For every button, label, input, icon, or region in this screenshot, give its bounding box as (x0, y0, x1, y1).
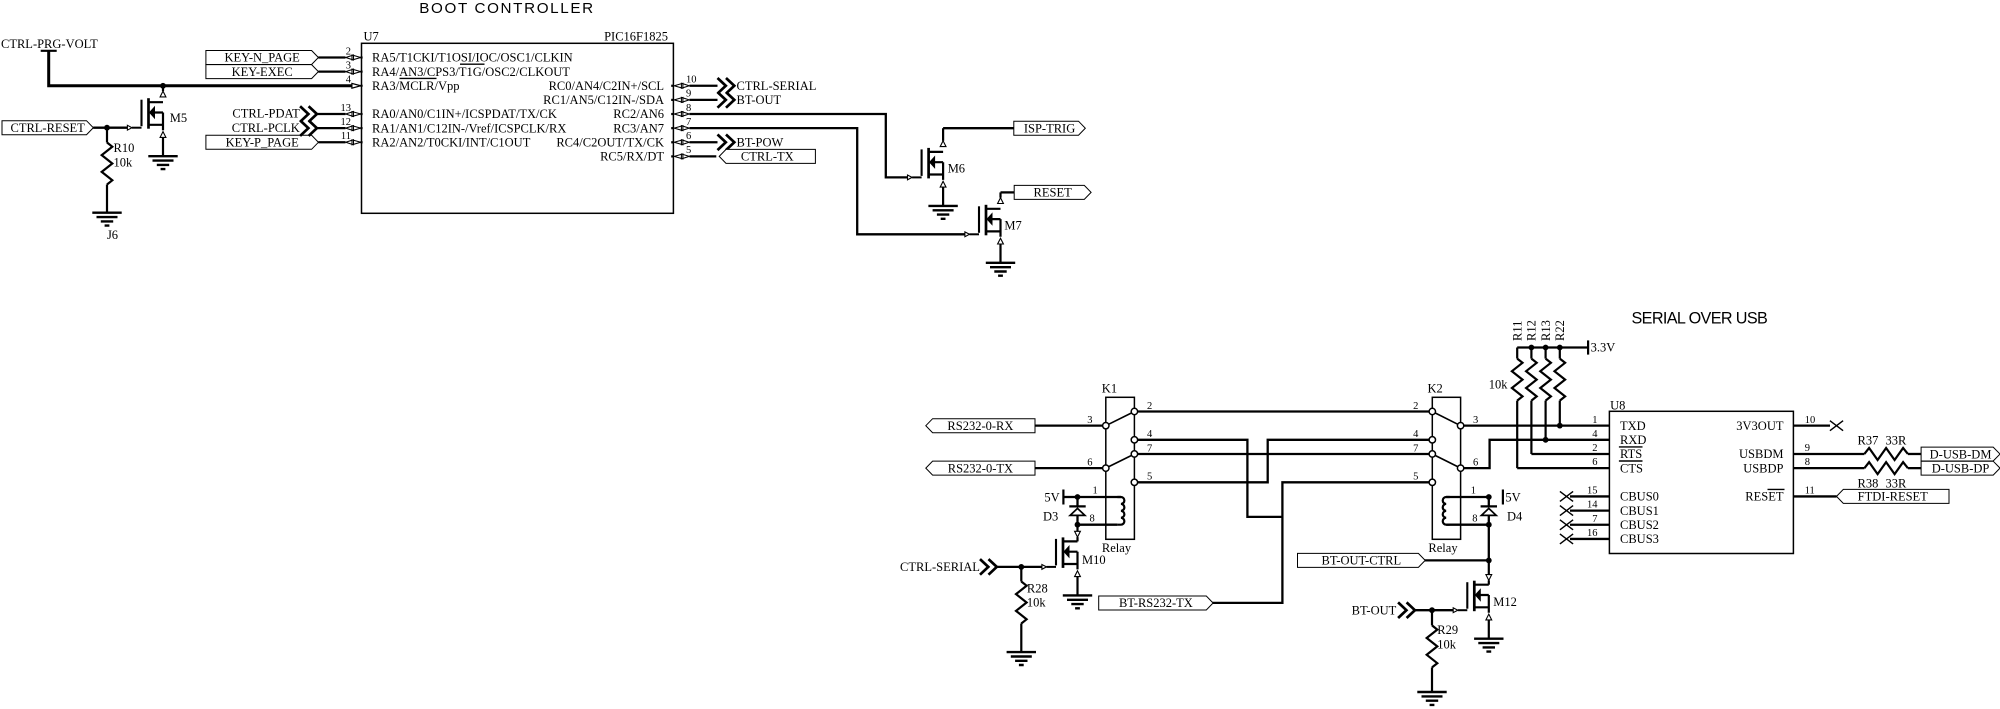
M12 drain pin arrow (1486, 575, 1492, 581)
wire K1 coil pin 1 to 5V (1078, 496, 1121, 498)
wire K1.2 to K2.2 (1138, 410, 1430, 412)
K1 contact pin 7 (1131, 451, 1137, 457)
U7 pin 8 (674, 112, 689, 117)
wire 3V3OUT no-connect (1793, 425, 1830, 427)
svg-text:2: 2 (1413, 401, 1418, 412)
wire U8 CBUS pin row 8 (1570, 524, 1609, 526)
svg-text:U7: U7 (364, 30, 379, 44)
svg-text:10k: 10k (1027, 596, 1047, 610)
wire R22 top lead (1559, 348, 1561, 359)
bus entry CTRL-SERIAL (718, 78, 735, 94)
net stub under CTRL-PRG-VOLT (41, 50, 57, 52)
U7 pin 10 (674, 83, 689, 88)
svg-text:RC1/AN5/C12IN-/SDA: RC1/AN5/C12IN-/SDA (543, 93, 664, 107)
svg-text:CBUS1: CBUS1 (1620, 504, 1659, 518)
svg-text:11: 11 (341, 131, 351, 142)
net flag BT-RS232-TX (1099, 596, 1213, 610)
K2 contact pin 5 (1429, 479, 1435, 485)
power symbol 5V (K1) (1062, 490, 1064, 505)
net flag D-USB-DP (1921, 461, 2000, 475)
no-connect X (1560, 520, 1573, 530)
resistor R12 (1526, 359, 1537, 401)
wire 3.3V rail (1517, 346, 1588, 348)
svg-text:RC2/AN6: RC2/AN6 (613, 107, 664, 121)
wire BT-OUT-CTRL to M12 drain (1425, 559, 1489, 561)
ground at M6 source (928, 206, 957, 219)
wire KEY-EXEC to pin 3 (318, 70, 345, 72)
svg-text:11: 11 (1805, 486, 1815, 497)
svg-text:R37: R37 (1858, 434, 1879, 448)
U7 pin 7 (674, 126, 689, 131)
wire M6 drain to ISP-TRIG (943, 127, 1014, 129)
svg-text:CBUS3: CBUS3 (1620, 532, 1659, 546)
svg-text:RA2/AN2/T0CKI/INT/C1OUT: RA2/AN2/T0CKI/INT/C1OUT (372, 135, 531, 149)
K2 contact pin 6 (1457, 465, 1463, 471)
svg-text:RTS: RTS (1620, 447, 1642, 461)
wire R12 top lead (1530, 348, 1532, 359)
power symbol 3.3V (1587, 340, 1589, 354)
wire CTRL-PRG-VOLT to U7 pin 4 (49, 51, 352, 86)
no-connect X at 3V3OUT (1830, 421, 1843, 431)
junction D3 / K1 coil 8 / M10 drain (1075, 522, 1081, 528)
junction CTRL-PRG-VOLT / M5 drain (160, 83, 166, 89)
svg-text:10: 10 (686, 75, 697, 86)
U7 pin 4 (352, 83, 361, 88)
wire M7 drain vertical (999, 192, 1001, 197)
svg-text:J6: J6 (107, 228, 118, 242)
bus entry CTRL-PDAT (300, 106, 317, 122)
svg-text:15: 15 (1587, 486, 1598, 497)
svg-text:8: 8 (1472, 514, 1477, 525)
svg-text:2: 2 (1592, 443, 1597, 454)
svg-text:4: 4 (1413, 429, 1419, 440)
ground at M5 source (148, 156, 177, 169)
wire R28 top lead (1020, 567, 1022, 582)
svg-text:M12: M12 (1493, 595, 1517, 609)
wire pin 9 to BT-OUT (690, 99, 718, 101)
U7 pin 11 (346, 140, 361, 145)
U7 pin 13 (346, 112, 361, 117)
svg-text:6: 6 (1087, 457, 1092, 468)
svg-text:10k: 10k (1489, 378, 1509, 392)
svg-text:CTRL-PDAT: CTRL-PDAT (232, 107, 300, 121)
svg-text:RA5/T1CKI/T1OSI/IOC/OSC1/CLKIN: RA5/T1CKI/T1OSI/IOC/OSC1/CLKIN (372, 51, 573, 65)
ground at M12 source (1474, 639, 1503, 652)
wire D4 cathode lead (1488, 497, 1490, 506)
svg-text:ISP-TRIG: ISP-TRIG (1024, 121, 1075, 135)
svg-text:2: 2 (346, 46, 351, 57)
svg-text:BT-OUT: BT-OUT (1352, 603, 1397, 617)
svg-text:CBUS2: CBUS2 (1620, 518, 1659, 532)
ic U7 PIC16F1825 box (362, 43, 674, 213)
svg-text:RC4/C2OUT/TX/CK: RC4/C2OUT/TX/CK (556, 135, 664, 149)
svg-text:USBDM: USBDM (1739, 447, 1783, 461)
wire K2 coil pin 1 to 5V (1446, 496, 1489, 498)
svg-text:RA1/AN1/C12IN-/Vref/ICSPCLK/RX: RA1/AN1/C12IN-/Vref/ICSPCLK/RX (372, 121, 566, 135)
wire to M12 drain arrow (1488, 560, 1490, 574)
K2 contact pin 2 (1429, 408, 1435, 414)
wire R37 to D-USB-DM (1908, 453, 1921, 455)
U8 RTS/CTS overbars (1619, 447, 1643, 461)
svg-text:R22: R22 (1553, 320, 1567, 341)
svg-text:RS232-0-TX: RS232-0-TX (948, 461, 1013, 475)
wire CTRL-RESET to M5 gate (93, 127, 128, 129)
wire CTRL-SERIAL to M10 gate (997, 566, 1042, 568)
resistor R10 (102, 143, 113, 185)
svg-text:1: 1 (1592, 415, 1597, 426)
svg-text:9: 9 (1805, 443, 1810, 454)
svg-text:33R: 33R (1885, 434, 1907, 448)
U7 pin 3 (346, 69, 361, 74)
svg-text:7: 7 (1592, 514, 1597, 525)
wire D4 anode lead (1488, 515, 1490, 524)
U7 overbar marks (400, 64, 485, 78)
svg-text:U8: U8 (1610, 398, 1625, 412)
K1 switch arm 6-7 (1106, 454, 1135, 468)
transistor M7 (965, 205, 1004, 244)
junction R22 / TXD (1557, 423, 1563, 429)
junction 3.3V rail (1529, 345, 1535, 351)
svg-text:BT-OUT-CTRL: BT-OUT-CTRL (1322, 554, 1402, 568)
resistor R28 (1016, 582, 1027, 624)
wire K2.6 to U8 RXD (1464, 440, 1610, 468)
svg-text:RC3/AN7: RC3/AN7 (613, 121, 664, 135)
svg-text:TXD: TXD (1620, 419, 1646, 433)
svg-text:10k: 10k (114, 156, 134, 170)
net flag RESET (1014, 185, 1091, 199)
svg-text:RA3/MCLR/Vpp: RA3/MCLR/Vpp (372, 79, 460, 93)
K1 contact pin 6 (1103, 465, 1109, 471)
ground at R28 (1007, 652, 1036, 665)
svg-text:4: 4 (1147, 429, 1153, 440)
svg-text:R29: R29 (1437, 623, 1458, 637)
svg-text:CTRL-RESET: CTRL-RESET (10, 121, 85, 135)
wire R12 to U8 RTS (1531, 453, 1609, 455)
K1 contact pin 5 (1131, 479, 1137, 485)
svg-text:CTRL-SERIAL: CTRL-SERIAL (900, 560, 980, 574)
svg-text:RC5/RX/DT: RC5/RX/DT (600, 150, 664, 164)
svg-text:K1: K1 (1102, 382, 1117, 396)
svg-text:12: 12 (341, 117, 352, 128)
K2 switch arm 6-7 (1432, 454, 1460, 468)
resistor R38 (1864, 462, 1908, 474)
net flag KEY-N_PAGE (206, 51, 319, 65)
K2 switch arm 3-2 (1432, 412, 1460, 426)
svg-text:33R: 33R (1885, 477, 1907, 491)
svg-text:CBUS0: CBUS0 (1620, 490, 1659, 504)
wire R38 to D-USB-DP (1908, 467, 1921, 469)
svg-text:13: 13 (341, 103, 352, 114)
resistor R37 (1864, 448, 1908, 460)
svg-text:4: 4 (1592, 429, 1598, 440)
U7 pin 6 (674, 140, 689, 145)
svg-text:R10: R10 (114, 141, 135, 155)
wire U8 CBUS pin row 6 (1570, 495, 1609, 497)
transistor M6 (908, 148, 947, 187)
K1 switch arm 3-2 (1106, 412, 1135, 426)
net flag CTRL-RESET (2, 121, 93, 135)
svg-text:M5: M5 (170, 111, 187, 125)
svg-text:RS232-0-RX: RS232-0-RX (947, 419, 1013, 433)
svg-text:CTRL-SERIAL: CTRL-SERIAL (737, 79, 817, 93)
svg-text:3.3V: 3.3V (1591, 340, 1616, 354)
wire R10 top lead (106, 128, 108, 143)
svg-text:CTRL-TX: CTRL-TX (741, 150, 794, 164)
svg-text:R13: R13 (1539, 320, 1553, 341)
svg-text:M7: M7 (1004, 218, 1021, 232)
wire KEY-N_PAGE to pin 2 (318, 56, 345, 58)
svg-text:FTDI-RESET: FTDI-RESET (1858, 490, 1929, 504)
net flag KEY-P_PAGE (206, 135, 319, 149)
svg-text:D-USB-DP: D-USB-DP (1932, 461, 1990, 475)
svg-text:7: 7 (686, 117, 691, 128)
wire K2 coil pin 8 to D4 (1446, 524, 1489, 526)
svg-text:4: 4 (346, 75, 352, 86)
svg-text:RC0/AN4/C2IN+/SCL: RC0/AN4/C2IN+/SCL (549, 79, 664, 93)
wire M5 drain to junction (162, 86, 164, 91)
svg-text:USBDP: USBDP (1743, 461, 1783, 475)
wire to M10 drain (1076, 525, 1078, 532)
svg-text:1: 1 (1471, 486, 1476, 497)
wire M7 drain to RESET (1001, 191, 1015, 193)
junction BT-OUT-CTRL / M12 drain (1486, 558, 1492, 564)
U7 pin 12 (346, 126, 361, 131)
svg-text:10: 10 (1805, 415, 1816, 426)
wire R29 bottom lead (1431, 667, 1433, 692)
wire M7 source to ground (999, 244, 1001, 263)
M5 drain pin arrow (160, 91, 166, 97)
svg-text:PIC16F1825: PIC16F1825 (604, 30, 668, 44)
svg-text:M6: M6 (948, 161, 965, 175)
wire KEY-P_PAGE to pin 11 (318, 141, 345, 143)
K1 contact pin 3 (1103, 422, 1109, 428)
svg-text:5: 5 (686, 145, 691, 156)
net flag BT-OUT-CTRL (1298, 553, 1426, 567)
net flag RS232-0-TX (926, 461, 1035, 475)
svg-text:8: 8 (686, 103, 691, 114)
K2 contact pin 4 (1429, 437, 1435, 443)
svg-text:RA0/AN0/C1IN+/ICSPDAT/TX/CK: RA0/AN0/C1IN+/ICSPDAT/TX/CK (372, 107, 557, 121)
wire R28 bottom lead (1020, 624, 1022, 653)
ground at M10 source (1063, 595, 1092, 608)
wire K1 coil pin 8 to D3 (1078, 524, 1118, 526)
svg-text:M10: M10 (1082, 553, 1106, 567)
junction R13 / RXD (1543, 437, 1549, 443)
junction 5V / D3 cathode (1075, 494, 1081, 500)
svg-text:D-USB-DM: D-USB-DM (1930, 447, 1992, 461)
svg-text:SERIAL OVER USB: SERIAL OVER USB (1632, 310, 1768, 328)
svg-text:7: 7 (1147, 443, 1152, 454)
wire R11 bottom lead to CTS (1516, 401, 1518, 469)
net flag RS232-0-RX (926, 419, 1035, 433)
wire R11 top lead (1516, 348, 1518, 359)
wire USBDM to R37 (1793, 453, 1864, 455)
wire R11 to U8 CTS (1517, 467, 1609, 469)
wire M6 drain vertical (942, 128, 944, 141)
bus entry CTRL-SERIAL (M10) (980, 559, 997, 575)
net flag ISP-TRIG (1014, 121, 1086, 135)
svg-text:10k: 10k (1437, 638, 1457, 652)
transistor M10 (1042, 537, 1081, 576)
svg-text:2: 2 (1147, 401, 1152, 412)
wire K1.7 to K2.7 (1138, 453, 1430, 455)
svg-text:1: 1 (1093, 486, 1098, 497)
wire M12 source to ground (1488, 620, 1490, 639)
wire pin 6 to BT-POW (690, 141, 718, 143)
ground J6 (92, 213, 121, 226)
K1 contact pin 2 (1131, 408, 1137, 414)
svg-text:CTRL-PCLK: CTRL-PCLK (232, 121, 300, 135)
bus entry CTRL-PCLK (300, 120, 317, 136)
power symbol 5V (K2) (1502, 490, 1504, 505)
transistor M5 (127, 98, 165, 137)
svg-text:R11: R11 (1511, 321, 1525, 341)
svg-text:6: 6 (1473, 457, 1478, 468)
junction D4 / K2 coil 8 / M12 drain (1486, 522, 1492, 528)
net flag CTRL-TX (719, 149, 815, 163)
K1 coil (1117, 497, 1124, 525)
svg-text:5: 5 (1413, 472, 1418, 483)
ground at R29 (1417, 692, 1446, 705)
wire R13 top lead (1544, 348, 1546, 359)
svg-text:3V3OUT: 3V3OUT (1736, 419, 1784, 433)
wire U8 CBUS pin row 9 (1570, 538, 1609, 540)
wire D4 to BT-OUT-CTRL junction (1488, 525, 1490, 561)
svg-text:BT-OUT: BT-OUT (737, 93, 782, 107)
diode D3 (1069, 506, 1085, 515)
wire R10 bottom lead (106, 185, 108, 213)
wire R12 bottom lead to RTS (1530, 401, 1532, 454)
junction 3.3V rail (1543, 345, 1549, 351)
wire K1.5 to K2.4 (1138, 440, 1430, 482)
wire U8 CBUS pin row 7 (1570, 509, 1609, 511)
bus entry BT-OUT (M12) (1398, 602, 1415, 618)
transistor M12 (1453, 581, 1492, 620)
relay K2 box (1432, 397, 1460, 539)
net flag D-USB-DM (1921, 447, 2000, 461)
svg-text:3: 3 (346, 60, 351, 71)
U7 pin 2 (346, 55, 361, 60)
K2 contact pin 3 (1457, 422, 1463, 428)
svg-text:KEY-EXEC: KEY-EXEC (232, 65, 293, 79)
svg-text:3: 3 (1087, 415, 1092, 426)
svg-text:KEY-N_PAGE: KEY-N_PAGE (225, 51, 301, 65)
junction CTRL-RESET / R10 (104, 125, 110, 131)
ic U8 box (1609, 411, 1793, 553)
no-connect X (1560, 534, 1573, 544)
wire pin 10 to CTRL-SERIAL (690, 85, 718, 87)
wire BT-OUT to M12 gate (1415, 609, 1453, 611)
wire pin 7 (RC3) to M7 gate (690, 128, 966, 234)
wire M12 drain vertical (1488, 580, 1490, 584)
M6 drain pin arrow (940, 141, 946, 147)
U7 pin 9 (674, 97, 689, 102)
svg-text:8: 8 (1805, 457, 1810, 468)
junction 3.3V rail (1557, 345, 1563, 351)
svg-text:14: 14 (1587, 500, 1598, 511)
svg-text:RA4/AN3/CPS3/T1G/OSC2/CLKOUT: RA4/AN3/CPS3/T1G/OSC2/CLKOUT (372, 65, 570, 79)
wire M10 source to ground (1076, 577, 1078, 596)
wire USBDP to R38 (1793, 467, 1864, 469)
wire K1.4 to BT-RS232-TX net (1138, 440, 1283, 517)
resistor R22 (1555, 359, 1566, 401)
svg-text:BOOT CONTROLLER: BOOT CONTROLLER (419, 0, 595, 17)
wire M5 source to ground (162, 137, 164, 156)
M7 drain pin arrow (998, 198, 1004, 204)
K2 coil (1443, 497, 1450, 525)
wire M6 source to ground (942, 187, 944, 206)
wire RS232-0-RX to K1 pin 3 (1035, 425, 1103, 427)
K1 contact pin 4 (1131, 437, 1137, 443)
svg-text:R38: R38 (1858, 477, 1879, 491)
svg-text:RESET: RESET (1034, 186, 1073, 200)
wire CTRL-PDAT to pin 13 (317, 113, 346, 115)
wire 5V to K1 coil 1 (1063, 496, 1077, 498)
svg-text:K2: K2 (1428, 382, 1443, 396)
junction BT-OUT / R29 (1429, 607, 1435, 613)
resistor R11 (1512, 359, 1523, 401)
svg-text:Relay: Relay (1102, 541, 1132, 555)
wire R22 bottom lead to TXD (1559, 401, 1561, 426)
wire pin 8 (RC2) to M6 gate (690, 114, 908, 177)
svg-text:16: 16 (1587, 528, 1598, 539)
svg-text:Relay: Relay (1428, 541, 1458, 555)
wire K2.5 to BT-RS232-TX (1212, 482, 1429, 603)
relay K1 box (1106, 397, 1135, 539)
svg-text:5V: 5V (1044, 490, 1059, 504)
wire RESET to FTDI-RESET (1793, 495, 1836, 497)
svg-text:KEY-P_PAGE: KEY-P_PAGE (226, 136, 300, 150)
wire R29 top lead (1431, 610, 1433, 625)
junction 5V / D4 cathode (1486, 494, 1492, 500)
wire pin 5 to CTRL-TX (690, 155, 717, 157)
bus entry BT-OUT (718, 92, 735, 108)
svg-text:5V: 5V (1505, 490, 1520, 504)
svg-text:5: 5 (1147, 472, 1152, 483)
svg-text:CTS: CTS (1620, 461, 1643, 475)
wire M10 drain vertical (1076, 537, 1078, 541)
diode D4 (1481, 506, 1497, 515)
K2 contact pin 7 (1429, 451, 1435, 457)
net flag FTDI-RESET (1837, 489, 1950, 503)
svg-text:BT-POW: BT-POW (737, 135, 784, 149)
svg-text:R28: R28 (1027, 582, 1048, 596)
svg-text:D4: D4 (1507, 510, 1523, 524)
resistor R29 (1427, 625, 1438, 667)
svg-text:6: 6 (686, 131, 691, 142)
svg-text:CTRL-PRG-VOLT: CTRL-PRG-VOLT (1, 37, 98, 51)
svg-text:D3: D3 (1043, 510, 1058, 524)
svg-text:RXD: RXD (1620, 433, 1646, 447)
ground at M7 source (986, 263, 1015, 276)
U7 pin 5 (674, 154, 689, 159)
svg-text:9: 9 (686, 89, 691, 100)
no-connect X (1560, 506, 1573, 516)
no-connect X (1560, 491, 1573, 501)
svg-text:3: 3 (1473, 415, 1478, 426)
wire D3 cathode lead (1076, 497, 1078, 506)
U8 RESET overbar (1768, 488, 1785, 490)
bus entry BT-POW (718, 134, 735, 150)
wire K2.3 to U8 TXD (1464, 425, 1610, 427)
svg-text:7: 7 (1413, 443, 1418, 454)
resistor R13 (1540, 359, 1551, 401)
wire RS232-0-TX to K1 pin 6 (1035, 467, 1103, 469)
net flag KEY-EXEC (206, 65, 319, 79)
svg-text:R12: R12 (1525, 320, 1539, 341)
M10 drain pin arrow (1075, 531, 1081, 537)
svg-text:BT-RS232-TX: BT-RS232-TX (1119, 596, 1193, 610)
